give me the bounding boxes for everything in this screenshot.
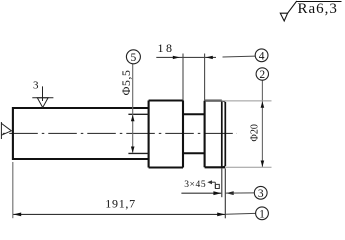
arrow 191,7 right — [217, 213, 225, 217]
svg-text:Φ20: Φ20 — [250, 124, 261, 141]
svg-text:18: 18 — [158, 41, 175, 55]
balloon 4 — [255, 49, 268, 63]
balloon 2 leader / phi20 dim line — [261, 80, 263, 167]
svg-text:191,7: 191,7 — [105, 197, 136, 211]
svg-text:3: 3 — [33, 79, 39, 91]
svg-text:1: 1 — [259, 209, 265, 221]
dimension line 191,7 — [13, 213, 225, 215]
svg-text:2: 2 — [259, 69, 265, 81]
arrow 3x45 pointing left — [226, 191, 234, 195]
balloon 2 — [256, 68, 268, 81]
phi20 extension line bottom — [226, 166, 272, 168]
right end edge — [224, 102, 226, 166]
balloon 1 leader — [226, 212, 256, 215]
svg-text:Ra6,3: Ra6,3 — [298, 1, 338, 17]
arrow down phi5,5 — [131, 147, 135, 153]
chamfer dim extension line outer — [224, 169, 226, 219]
surface finish mark on shaft (3 + triangle) — [32, 86, 53, 107]
svg-text:4: 4 — [259, 51, 265, 63]
extension line 18 right — [204, 54, 206, 101]
chamfer dim extension line inner — [221, 169, 223, 198]
svg-text:Φ5,5: Φ5,5 — [119, 70, 133, 96]
svg-text:5: 5 — [131, 52, 137, 64]
chamfer corner top — [222, 101, 226, 103]
chamfer line — [221, 101, 223, 168]
arrow up phi20 — [261, 101, 265, 107]
balloon 3 — [254, 186, 267, 200]
arrow 18 pointing right — [173, 56, 180, 59]
chamfer corner bottom — [222, 166, 226, 167]
groove diameter ticks (extension stubs) — [128, 113, 148, 115]
svg-text:3: 3 — [258, 188, 264, 200]
step 1 (large collar) — [149, 101, 183, 168]
groove (reduced neck) — [183, 114, 205, 153]
3x45 symbol arrowhead — [207, 180, 212, 184]
balloon 1 — [256, 207, 269, 221]
shaft body (main diameter) — [13, 107, 149, 160]
arrow down phi20 — [261, 161, 265, 167]
svg-text:3×45: 3×45 — [184, 180, 206, 190]
centerline — [2, 132, 237, 134]
arrow 191,7 left — [13, 213, 21, 217]
balloon 4 leader — [223, 55, 256, 58]
step 2 (right collar with chamfer) — [205, 101, 226, 168]
balloon 3 leader — [226, 192, 255, 194]
arrow 3x45 pointing right — [213, 191, 221, 195]
leader line from balloon 5 / dim phi5,5 — [132, 64, 134, 153]
phi20 extension line top — [205, 100, 271, 102]
arrow 18 pointing left — [206, 56, 213, 59]
dimension line 3x45 — [181, 192, 221, 194]
dimension line 18 — [156, 56, 216, 58]
arrow up phi5,5 — [131, 115, 135, 121]
extension line 191,7 left — [12, 162, 14, 218]
3x45 trailing symbol (degree hook and box) — [209, 182, 219, 188]
extension line 18 left — [182, 54, 184, 101]
balloon 5 — [126, 50, 140, 64]
surface roughness symbol Ra6,3 — [280, 1, 341, 21]
center-hole mark at left end — [1, 122, 11, 139]
